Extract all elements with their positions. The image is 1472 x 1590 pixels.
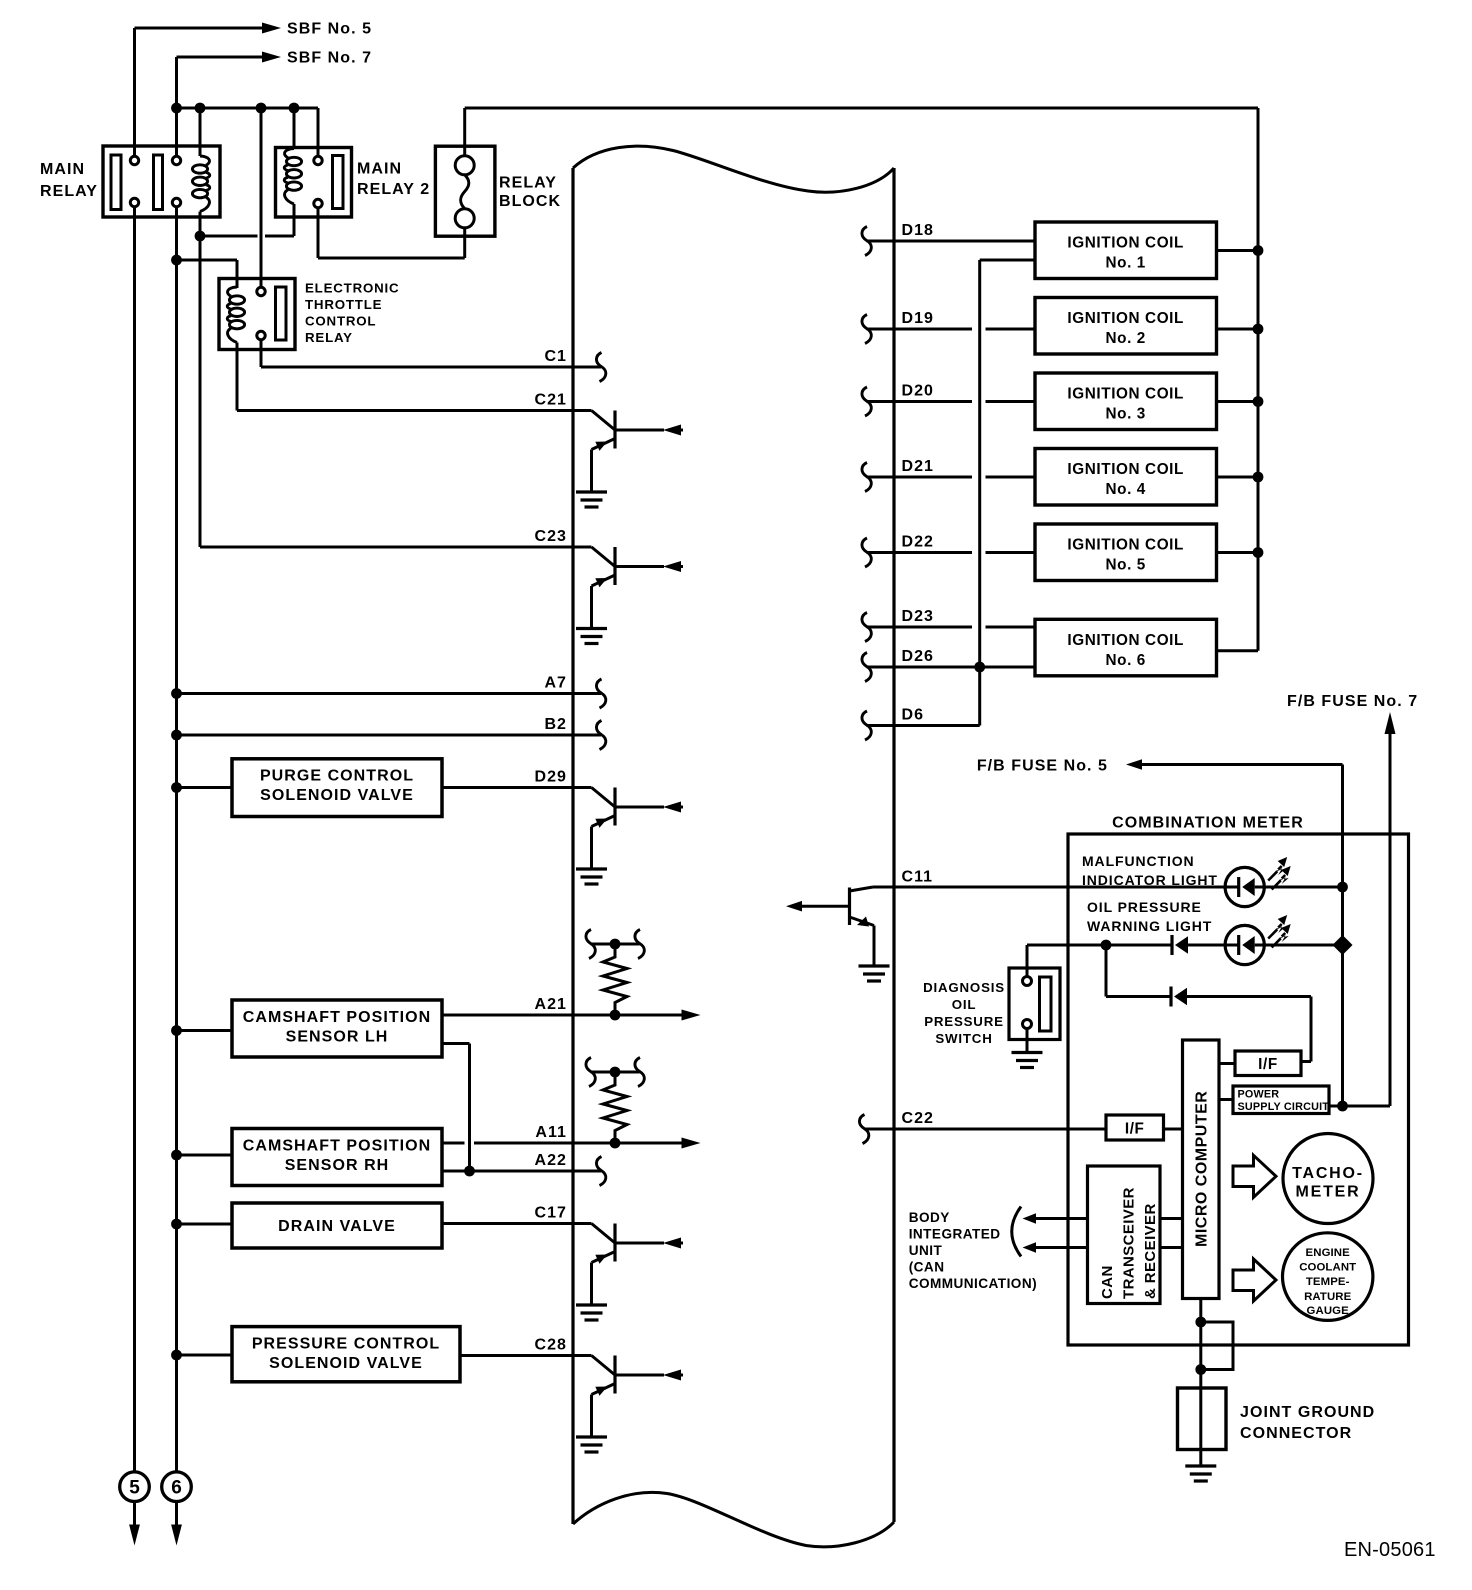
svg-text:D18: D18 bbox=[902, 222, 935, 239]
svg-text:C23: C23 bbox=[534, 528, 567, 545]
svg-text:CAN: CAN bbox=[1099, 1265, 1116, 1299]
svg-text:6: 6 bbox=[171, 1477, 182, 1498]
svg-text:No. 5: No. 5 bbox=[1105, 557, 1145, 574]
svg-text:C21: C21 bbox=[534, 392, 567, 409]
svg-text:F/B FUSE No. 5: F/B FUSE No. 5 bbox=[977, 758, 1108, 775]
svg-text:A7: A7 bbox=[544, 675, 567, 692]
svg-text:C11: C11 bbox=[902, 869, 934, 886]
svg-text:I/F: I/F bbox=[1125, 1121, 1145, 1138]
svg-text:RELAY: RELAY bbox=[40, 183, 98, 200]
svg-text:IGNITION COIL: IGNITION COIL bbox=[1067, 632, 1184, 649]
svg-text:D20: D20 bbox=[902, 383, 935, 400]
svg-text:A21: A21 bbox=[534, 996, 567, 1013]
svg-text:WARNING LIGHT: WARNING LIGHT bbox=[1087, 918, 1212, 934]
svg-text:METER: METER bbox=[1296, 1184, 1361, 1201]
svg-text:THROTTLE: THROTTLE bbox=[305, 297, 382, 312]
svg-text:D19: D19 bbox=[902, 310, 935, 327]
svg-text:CAMSHAFT POSITION: CAMSHAFT POSITION bbox=[243, 1138, 432, 1155]
svg-text:POWER: POWER bbox=[1238, 1089, 1280, 1101]
svg-text:MAIN: MAIN bbox=[357, 161, 402, 178]
svg-text:No. 4: No. 4 bbox=[1105, 481, 1145, 498]
svg-text:RELAY: RELAY bbox=[499, 175, 557, 192]
svg-text:D29: D29 bbox=[534, 769, 567, 786]
svg-text:DRAIN VALVE: DRAIN VALVE bbox=[278, 1218, 396, 1235]
svg-text:I/F: I/F bbox=[1258, 1056, 1278, 1073]
svg-text:UNIT: UNIT bbox=[909, 1243, 943, 1258]
svg-text:D26: D26 bbox=[902, 648, 935, 665]
svg-text:COMMUNICATION): COMMUNICATION) bbox=[909, 1276, 1037, 1291]
svg-text:No. 6: No. 6 bbox=[1105, 652, 1145, 669]
svg-text:No. 1: No. 1 bbox=[1105, 255, 1145, 272]
svg-text:IGNITION COIL: IGNITION COIL bbox=[1067, 537, 1184, 554]
svg-text:TRANSCEIVER: TRANSCEIVER bbox=[1121, 1187, 1138, 1299]
svg-text:COMBINATION METER: COMBINATION METER bbox=[1112, 815, 1304, 832]
svg-text:INTEGRATED: INTEGRATED bbox=[909, 1227, 1001, 1242]
svg-text:SBF No. 7: SBF No. 7 bbox=[287, 50, 372, 67]
svg-text:IGNITION COIL: IGNITION COIL bbox=[1067, 310, 1184, 327]
svg-text:MICRO COMPUTER: MICRO COMPUTER bbox=[1194, 1091, 1211, 1247]
svg-text:PRESSURE: PRESSURE bbox=[924, 1014, 1004, 1029]
svg-text:IGNITION COIL: IGNITION COIL bbox=[1067, 461, 1184, 478]
svg-text:C17: C17 bbox=[534, 1205, 567, 1222]
svg-text:D21: D21 bbox=[902, 458, 935, 475]
svg-text:SENSOR RH: SENSOR RH bbox=[285, 1157, 390, 1174]
svg-text:JOINT GROUND: JOINT GROUND bbox=[1240, 1404, 1375, 1421]
svg-text:ELECTRONIC: ELECTRONIC bbox=[305, 281, 399, 296]
svg-text:B2: B2 bbox=[544, 716, 567, 733]
svg-text:ENGINE: ENGINE bbox=[1306, 1247, 1351, 1259]
svg-text:& RECEIVER: & RECEIVER bbox=[1142, 1203, 1159, 1299]
svg-text:OIL: OIL bbox=[952, 997, 977, 1012]
svg-text:BLOCK: BLOCK bbox=[499, 193, 561, 210]
svg-text:RATURE: RATURE bbox=[1304, 1291, 1352, 1303]
svg-text:F/B FUSE No. 7: F/B FUSE No. 7 bbox=[1287, 693, 1418, 710]
svg-text:SBF No. 5: SBF No. 5 bbox=[287, 21, 372, 38]
svg-text:No. 3: No. 3 bbox=[1105, 406, 1145, 423]
svg-text:SOLENOID VALVE: SOLENOID VALVE bbox=[269, 1355, 423, 1372]
svg-text:PURGE CONTROL: PURGE CONTROL bbox=[260, 768, 414, 785]
svg-text:CONTROL: CONTROL bbox=[305, 314, 376, 329]
svg-text:SENSOR LH: SENSOR LH bbox=[286, 1029, 389, 1046]
svg-text:IGNITION COIL: IGNITION COIL bbox=[1067, 235, 1184, 252]
svg-text:MALFUNCTION: MALFUNCTION bbox=[1082, 853, 1195, 869]
svg-text:DIAGNOSIS: DIAGNOSIS bbox=[923, 980, 1005, 995]
svg-text:A11: A11 bbox=[535, 1124, 567, 1141]
svg-text:MAIN: MAIN bbox=[40, 161, 85, 178]
svg-text:OIL PRESSURE: OIL PRESSURE bbox=[1087, 899, 1202, 915]
svg-text:No. 2: No. 2 bbox=[1105, 330, 1145, 347]
svg-text:RELAY: RELAY bbox=[305, 330, 353, 345]
svg-text:C1: C1 bbox=[544, 348, 567, 365]
svg-text:C22: C22 bbox=[902, 1110, 935, 1127]
svg-text:IGNITION COIL: IGNITION COIL bbox=[1067, 386, 1184, 403]
svg-text:TACHO-: TACHO- bbox=[1292, 1165, 1364, 1182]
svg-text:CONNECTOR: CONNECTOR bbox=[1240, 1425, 1352, 1442]
svg-text:BODY: BODY bbox=[909, 1210, 950, 1225]
svg-text:D23: D23 bbox=[902, 608, 935, 625]
svg-text:EN-05061: EN-05061 bbox=[1344, 1539, 1436, 1561]
svg-text:C28: C28 bbox=[534, 1337, 567, 1354]
svg-text:SUPPLY CIRCUIT: SUPPLY CIRCUIT bbox=[1238, 1101, 1330, 1113]
svg-text:RELAY 2: RELAY 2 bbox=[357, 181, 430, 198]
svg-text:SWITCH: SWITCH bbox=[935, 1031, 992, 1046]
svg-text:GAUGE: GAUGE bbox=[1307, 1305, 1350, 1317]
svg-text:A22: A22 bbox=[534, 1152, 567, 1169]
svg-text:PRESSURE CONTROL: PRESSURE CONTROL bbox=[252, 1336, 440, 1353]
svg-text:TEMPE-: TEMPE- bbox=[1306, 1276, 1350, 1288]
svg-text:5: 5 bbox=[129, 1477, 140, 1498]
svg-text:CAMSHAFT POSITION: CAMSHAFT POSITION bbox=[243, 1009, 432, 1026]
svg-text:D6: D6 bbox=[902, 707, 925, 724]
svg-text:D22: D22 bbox=[902, 534, 935, 551]
svg-text:SOLENOID VALVE: SOLENOID VALVE bbox=[260, 787, 414, 804]
svg-text:COOLANT: COOLANT bbox=[1299, 1262, 1356, 1274]
svg-text:INDICATOR LIGHT: INDICATOR LIGHT bbox=[1082, 872, 1218, 888]
svg-text:(CAN: (CAN bbox=[909, 1260, 945, 1275]
